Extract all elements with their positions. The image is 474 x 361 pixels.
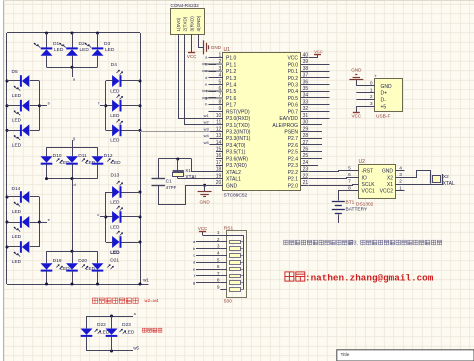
svg-text:X1: X1 [185,168,191,173]
svg-text:D13: D13 [111,173,120,179]
wire display bottom rail [7,284,149,286]
svg-text:D14: D14 [12,186,21,192]
svg-text:VCC: VCC [352,113,362,118]
svg-text:0: 0 [370,81,373,87]
svg-text:XTAL2: XTAL2 [226,170,241,176]
svg-text:P1.4: P1.4 [226,82,237,88]
svg-text:IO: IO [362,175,367,181]
svg-text:17: 17 [216,160,222,166]
svg-text:g: g [73,136,75,141]
svg-text:16: 16 [216,153,222,159]
svg-text:RST(VPD): RST(VPD) [226,109,250,115]
svg-text:LED: LED [105,47,115,53]
svg-text:LED: LED [12,209,22,215]
svg-text:ALE/PROG: ALE/PROG [272,123,298,129]
svg-text:w3: w3 [204,126,210,131]
svg-text:D3: D3 [104,41,110,47]
svg-text:37: 37 [303,73,309,79]
svg-text:w5: w5 [204,140,210,145]
svg-text:w1: w1 [143,278,149,283]
svg-text:47PF: 47PF [166,185,177,190]
svg-text:21: 21 [303,180,309,186]
label LED (seg F at y105) [12,111,22,124]
svg-text:28: 28 [303,133,309,139]
svg-text:h: h [205,102,207,107]
ground GND (CON4 pin4, sideways) [199,35,222,55]
svg-text:11: 11 [216,120,221,126]
svg-text:BATTERY: BATTERY [346,206,368,212]
wire seg-G top bus [47,140,98,148]
svg-text:w5: w5 [133,346,139,351]
svg-text:D-: D- [381,98,387,104]
svg-text:P2.2: P2.2 [288,170,299,176]
red author note [285,272,434,284]
wire pin20 to C1 ground loop [159,186,223,205]
svg-text:D22: D22 [97,322,106,328]
svg-text:9: 9 [217,285,220,291]
svg-text:LED: LED [12,142,22,148]
wire blink top rail [87,312,137,317]
svg-text:GND: GND [199,199,210,204]
svg-text:P1.2: P1.2 [226,69,237,75]
svg-text:P2.3: P2.3 [288,163,299,169]
svg-text:29: 29 [303,126,309,132]
svg-text:25: 25 [303,153,309,159]
svg-text:+5: +5 [381,104,387,110]
svg-text:SCLK: SCLK [362,182,376,188]
svg-text:C1: C1 [166,179,172,184]
svg-text:P0.4: P0.4 [288,89,299,95]
wires ALE/PSEN/P2.7-P2.4 right [308,125,322,159]
svg-text:P3.4(T0): P3.4(T0) [226,143,246,149]
svg-text:27: 27 [303,140,309,146]
svg-text:LED: LED [12,93,22,99]
LED D13 group (segment C lower-right) [97,173,141,249]
svg-text:40: 40 [303,52,309,58]
svg-text:+: + [374,74,377,79]
IC U2 pin labels [348,165,402,194]
wire display top rail [7,32,140,34]
wire U2 pin1 VCC2 stub [396,190,405,192]
svg-text:1: 1 [219,52,222,58]
svg-text:32: 32 [303,106,309,112]
svg-text:LED: LED [12,259,22,265]
svg-text:VCC2: VCC2 [380,189,394,195]
power VCC (U1 pin40) [309,49,323,58]
svg-text:P1.1: P1.1 [226,62,237,68]
svg-text:P1.0: P1.0 [226,56,237,62]
svg-text:d: d [74,182,76,187]
resistor network RS1 pins+elements [217,230,244,291]
svg-text:P0.7: P0.7 [288,109,299,115]
crystal X2 [431,174,455,187]
label LED (seg F at y81) [12,86,22,99]
ground GND (U1 pin20) [198,184,212,205]
LED D19 [41,251,71,285]
svg-text:4(GND): 4(GND) [196,15,201,31]
wires P0.0-P0.7,EA right [308,65,330,119]
svg-text:30: 30 [303,120,309,126]
LED D14 group (segment E lower-left) [6,186,51,253]
resistor network RS1 box [224,225,247,304]
IC U2 DS1302 body [356,165,396,208]
svg-text:P1.5: P1.5 [226,89,237,95]
svg-text:VCC: VCC [198,226,208,231]
svg-text:P2.7: P2.7 [288,136,299,142]
svg-text:500: 500 [224,299,232,305]
svg-text:XTAL: XTAL [185,175,197,181]
svg-text:22: 22 [303,173,309,179]
svg-text:LED: LED [110,199,120,205]
label LED (seg E at y197) [12,202,22,215]
wire U2 X2 to crystal [396,171,431,178]
node w5 [133,346,139,351]
label LED (seg B at y130) [110,119,122,143]
svg-text:5: 5 [219,79,222,85]
wires P1.0-P1.7 segment nets a-h [202,55,223,107]
svg-text:3: 3 [370,101,373,107]
svg-text:LED: LED [125,329,135,335]
svg-text:P2.0: P2.0 [288,183,299,189]
svg-text:w4: w4 [204,133,210,138]
wire U2 X1 to crystal [396,184,443,185]
svg-text:g: g [205,95,207,100]
svg-text:g: g [193,280,195,285]
svg-text:34: 34 [303,93,309,99]
svg-text:w2: w2 [204,120,210,125]
wire seg-G bottom bus [45,177,98,180]
svg-text:BT1: BT1 [346,200,355,206]
LED D21 [92,250,121,286]
wire CON4 pin1 to P3.0 [179,35,223,119]
red note same-method [92,298,138,303]
svg-text:3(RXD): 3(RXD) [189,16,194,32]
svg-text:7: 7 [348,179,351,185]
svg-text:D5: D5 [12,69,18,75]
wire xtal2 branch [192,159,223,172]
node w1 [143,278,149,283]
svg-text:39: 39 [303,59,309,65]
svg-text:D21: D21 [110,258,119,264]
label LED (seg C at y217) [110,206,122,230]
LED D3 [85,32,115,68]
LED D2 [60,32,90,68]
IC U1 left pins 1-20 [216,52,251,189]
wire display right rail [140,33,142,284]
svg-text:c: c [193,253,195,258]
svg-text:38: 38 [303,66,309,72]
wire U2 pin8 to battery [339,191,359,201]
IC U1 designator [224,47,231,53]
svg-text:15: 15 [216,146,222,152]
svg-text:P2.5: P2.5 [288,150,299,156]
svg-text:P0.0: P0.0 [288,62,299,68]
svg-text:GND: GND [211,45,222,50]
ground GND (USB pin0) [349,67,363,85]
svg-text:EA/VDD: EA/VDD [279,116,298,122]
svg-text:XTAL1: XTAL1 [226,177,241,183]
wire gray (P3.2 extension) [140,131,209,133]
LED D11 [66,147,96,178]
svg-text:2: 2 [399,179,402,185]
wire P2.3 (pin24) [308,165,318,167]
svg-text:GND: GND [226,183,238,189]
svg-text:P3,: P3, [350,241,358,247]
IC U1 right pins 40-21 [272,52,308,189]
label LED (seg B at y105) [110,95,122,119]
svg-text:P3.1(TXD): P3.1(TXD) [226,123,250,129]
LED D23 [106,316,135,351]
svg-text:P1.6: P1.6 [226,96,237,102]
svg-text:D20: D20 [78,258,87,264]
svg-text:P1.3: P1.3 [226,76,237,82]
svg-text:P3.2(INT0): P3.2(INT0) [226,130,251,136]
svg-text:c: c [97,212,99,217]
pin label 2(TXD) [183,16,188,31]
svg-text:P0.6: P0.6 [288,103,299,109]
wire g-to-d vertical [72,179,74,252]
label LED (seg E at y247) [12,252,22,265]
svg-text:P3.7(RD): P3.7(RD) [226,163,247,169]
svg-text:STC89C52: STC89C52 [224,192,248,198]
svg-text:P3.5(T1): P3.5(T1) [226,150,246,156]
svg-text:33: 33 [303,99,309,105]
LED D10 [41,147,71,178]
svg-text:X2: X2 [387,175,393,181]
svg-text:13: 13 [216,133,222,139]
svg-text:D12: D12 [104,153,113,159]
label LED (seg E at y222) [12,227,22,240]
label LED (seg F at y130) [12,135,22,148]
svg-text:CON4-RS232: CON4-RS232 [171,3,200,8]
svg-text:8: 8 [219,99,222,105]
LED D22 [81,316,110,351]
pin label 1(5V0) [176,17,181,31]
svg-text:P3.0(RXD): P3.0(RXD) [226,116,251,122]
svg-text:VCC1: VCC1 [362,189,376,195]
svg-text:w1: w1 [204,113,210,118]
label LED (seg C at y192) [110,181,122,205]
svg-text:PSEN: PSEN [284,130,298,136]
svg-text:X2: X2 [443,174,449,179]
svg-text:P0.2: P0.2 [288,76,299,82]
svg-text:LED: LED [110,224,120,230]
wire P2.2 to U2 RST [309,171,359,172]
svg-text:10: 10 [216,113,222,119]
svg-text:USB-F: USB-F [376,114,390,120]
power VCC (RS1 pin1) [198,226,227,236]
svg-text:36: 36 [303,79,309,85]
LED D20 [66,251,96,285]
svg-text:P0.1: P0.1 [288,69,299,75]
svg-text:GND: GND [381,84,393,90]
svg-text:LED: LED [110,113,120,119]
svg-text:LED: LED [80,47,90,53]
svg-text:D23: D23 [122,322,131,328]
wire P2.1 to U2 IO [309,178,359,179]
svg-text:26: 26 [303,146,309,152]
LED D5 group (segment F upper-left) [6,69,51,137]
svg-text:X1: X1 [387,182,393,188]
svg-text:LED: LED [12,234,22,240]
LED D4 group (segment B upper-right) [98,62,141,136]
svg-text:35: 35 [303,86,309,92]
power VCC (USB pin3) [352,106,362,118]
svg-text:24: 24 [303,160,309,166]
svg-text:D10: D10 [53,153,62,159]
wire CON4 pin2 to P3.1 [185,35,223,125]
IC U1 STC89C52 body [223,53,301,199]
svg-text:D4: D4 [111,62,117,68]
wire pin9 RST [209,111,217,113]
svg-text:VCC: VCC [187,54,197,59]
svg-text:2: 2 [370,94,373,100]
svg-text:w2=w4: w2=w4 [145,298,159,304]
svg-text:d: d [205,75,207,80]
svg-text:Title: Title [341,352,350,358]
label LED (seg B at y81) [110,70,122,94]
connector USB-F box [374,74,402,120]
connector USB-F pins [356,81,392,111]
wire P2.0 to U2 SCLK [309,185,359,186]
svg-text:GND: GND [351,67,362,72]
wire xtal top link [158,158,191,161]
LED D1 [34,32,64,68]
svg-text:D11: D11 [78,153,87,159]
wire seg-D top bus [47,250,98,253]
node g [73,136,75,141]
svg-text:-RST: -RST [362,169,374,175]
crystal X1 [173,159,198,181]
note blue chinese line [284,240,442,246]
title block [337,350,474,361]
power VCC (CON4 pin3) [187,34,197,59]
svg-text:P2.1: P2.1 [288,177,299,183]
net labels w1-w5 on P3.0-P3.4 [204,113,216,145]
svg-text:XTAL: XTAL [443,181,455,187]
IC U2 designator [359,159,366,165]
svg-text:P2.6: P2.6 [288,143,299,149]
connector CON4-RS232 box [171,3,205,35]
svg-text::nathen.zhang@gmail.com: :nathen.zhang@gmail.com [305,273,434,284]
svg-text:LED: LED [12,118,22,124]
svg-text:P1.7: P1.7 [226,103,237,109]
svg-text:23: 23 [303,167,309,173]
junction dot display bottom right [139,283,142,286]
svg-text:VCC: VCC [314,49,323,54]
node d [74,182,76,187]
wire display left rail [6,33,8,284]
label LED (seg C at y242) [110,231,122,255]
wire blink bottom rail [87,350,134,353]
svg-text:GND: GND [382,169,394,175]
svg-text:LED: LED [110,88,120,94]
svg-text:D1: D1 [53,41,59,47]
red note w2=w4 [145,298,159,304]
battery BT1 [332,200,368,223]
svg-text:14: 14 [216,140,222,146]
svg-text:P0.3: P0.3 [288,82,299,88]
pin label 4(GND) [196,15,201,31]
pin label 3(RXD) [189,16,194,32]
svg-text:P0.5: P0.5 [288,96,299,102]
LED D12 [92,147,122,178]
svg-text:P3.3(INT1): P3.3(INT1) [226,136,251,142]
svg-text:D19: D19 [53,258,62,264]
capacitor C1 [152,159,177,190]
svg-text:D+: D+ [381,91,388,97]
svg-text:D2: D2 [79,41,85,47]
svg-text:9: 9 [219,106,222,112]
svg-text:P3.6(WR): P3.6(WR) [226,156,248,162]
svg-text:1(5V0): 1(5V0) [176,17,181,31]
wire U2 pin4 GND stub [396,170,405,172]
svg-text:1: 1 [370,87,373,93]
svg-text:c: c [205,68,207,73]
svg-text:VCC: VCC [287,56,298,62]
wire xtal1 to pin19 [178,178,223,180]
svg-text:31: 31 [303,113,309,119]
svg-text:LED: LED [110,250,120,256]
svg-text:LED: LED [110,138,120,144]
wires RS1 nets a-g [193,239,220,285]
svg-text:P2.4: P2.4 [288,156,299,162]
svg-text:2(TXD): 2(TXD) [183,16,188,31]
svg-text:d: d [193,260,195,265]
svg-text:LED: LED [54,47,64,53]
red note seconds-blink [142,328,161,332]
svg-text:12: 12 [216,126,222,132]
wire seg-A bus [47,66,98,77]
node a (seg A) [73,77,76,82]
svg-text:4: 4 [219,73,222,79]
